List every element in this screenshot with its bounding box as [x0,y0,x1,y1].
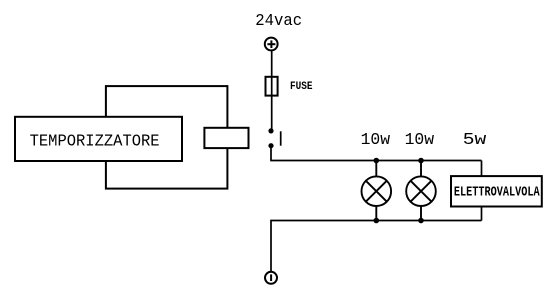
wire elettrovalvola to bottom rail [481,207,483,221]
svg-text:10w: 10w [361,131,391,150]
svg-text:10w: 10w [405,131,435,150]
svg-text:ELETTROVALVOLA: ELETTROVALVOLA [454,185,540,200]
wire node A top to elettrovalvola [481,161,483,177]
lamp L1 10w [362,161,392,221]
junction node C (lamp L1 bottom) [374,218,380,224]
terminal + (24vac positive) [265,38,278,51]
junction node B (lamp L2 top) [418,158,424,164]
svg-text:TEMPORIZZATORE: TEMPORIZZATORE [30,132,160,151]
switch contact (timer-operated, normally open) [268,128,280,148]
junction node A (lamp L1 top) [374,158,380,164]
fuse F1 [266,77,278,96]
wire fuse to switch [271,96,273,131]
bottom rail wire [271,221,482,273]
svg-text:5w: 5w [463,131,487,150]
wire switch to node A [271,146,482,161]
terminal return (24vac neutral) [265,272,277,284]
timer TEMPORIZZATORE box [15,117,182,161]
wire terminal to fuse [271,50,273,77]
svg-text:24vac: 24vac [255,12,302,31]
junction node D (lamp L2 bottom) [418,218,424,224]
relay coil K1 box [204,128,248,148]
timer output loop rectangle [106,86,227,189]
lamp L2 10w [406,161,436,221]
elettrovalvola EV1 box [451,176,542,206]
svg-text:FUSE: FUSE [290,81,313,93]
